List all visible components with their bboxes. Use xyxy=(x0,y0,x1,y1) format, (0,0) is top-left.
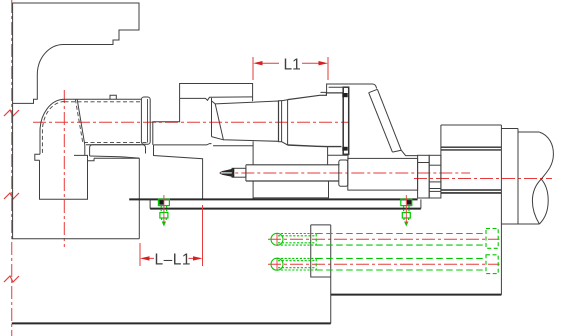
slanted cylinder left edge xyxy=(369,93,393,152)
platen upper block xyxy=(13,3,139,103)
cylinder break lens right xyxy=(539,179,548,224)
dimension L-L1 arrows xyxy=(150,257,194,259)
head 1 division xyxy=(418,162,430,164)
rail right cap xyxy=(420,199,422,208)
barrel bore hidden top xyxy=(65,101,141,103)
elbow inner dashed arc xyxy=(42,102,64,155)
centerline right cylinder axis xyxy=(414,178,552,180)
hopper pipe xyxy=(40,160,88,199)
injection cylinder rod body xyxy=(246,165,339,181)
plate cylinder joint xyxy=(347,154,349,160)
break mark 2 xyxy=(4,193,19,199)
dimension L-L1 extension left xyxy=(139,243,141,266)
elbow right foot xyxy=(74,155,88,158)
cylinder body xyxy=(348,158,418,190)
dimension L1 extension right xyxy=(327,57,329,80)
injection cylinder rod bottom xyxy=(246,180,339,182)
elbow right slant hidden xyxy=(75,99,83,143)
shoe bottom line xyxy=(90,156,140,158)
guide rail top xyxy=(129,198,417,200)
slanted cylinder bottom cap xyxy=(392,150,401,152)
screw tip highlight xyxy=(221,172,232,174)
carriage seat under coupling xyxy=(213,145,253,147)
platen bottom xyxy=(12,238,140,240)
U1 right lower edge xyxy=(252,97,254,101)
rail left cap xyxy=(149,199,151,208)
centerline tie rod 2 xyxy=(268,263,500,265)
motor block band bottom xyxy=(441,190,502,193)
dimension L1 arrows xyxy=(262,62,319,64)
barrel top key tab xyxy=(110,95,116,99)
upper cylinder block U1 xyxy=(180,84,253,99)
carriage left step xyxy=(154,145,203,200)
head 2 line b xyxy=(429,188,441,190)
slant foot extension xyxy=(401,150,417,155)
barrel top line xyxy=(65,98,142,100)
cylinder break lens left xyxy=(532,179,541,224)
elbow outer arc xyxy=(40,99,65,154)
housing front lower edge xyxy=(327,147,329,166)
front plate clamp top xyxy=(342,93,347,97)
barrel bottom line xyxy=(86,144,141,146)
tie rod 1 xyxy=(271,229,498,249)
base bottom left xyxy=(12,322,331,324)
head 2 line c xyxy=(429,190,441,192)
screw coupling quad xyxy=(215,101,278,141)
tie rod 1 end tick xyxy=(276,234,278,245)
step block right xyxy=(517,129,519,225)
cylinder coupler block xyxy=(339,160,348,186)
elbow right slant xyxy=(77,99,85,155)
head 2 line a xyxy=(429,164,441,166)
barrel nose left face xyxy=(287,100,289,145)
cylinder head 2 xyxy=(429,155,441,198)
centerline vertical left (machine axis) xyxy=(11,0,13,336)
front plate clamp bottom xyxy=(342,147,347,151)
platen lower edge left xyxy=(12,103,14,238)
elbow left foot xyxy=(35,154,40,160)
coupling washer xyxy=(279,101,282,142)
tie rod 2 end tick xyxy=(276,259,278,270)
housing top right step xyxy=(329,86,349,88)
cylinder break upper arc xyxy=(539,132,553,179)
rod left end xyxy=(245,165,247,181)
slanted cylinder right edge xyxy=(377,89,401,150)
tie rod 2 xyxy=(271,255,498,274)
housing rear top connector xyxy=(212,101,216,104)
motor block band top xyxy=(441,147,502,150)
anchor bolt 2 xyxy=(401,199,412,221)
break mark 1 xyxy=(4,110,19,116)
platen front face xyxy=(138,158,140,239)
cylinder support bracket xyxy=(253,181,329,198)
right foot step box xyxy=(88,158,95,160)
big cylinder bottom xyxy=(501,223,539,225)
barrel nose connectors xyxy=(282,100,288,145)
barrel nose taper top xyxy=(288,93,344,100)
centerline injection axis xyxy=(219,172,470,174)
head 2 line d xyxy=(429,181,441,183)
base pedestal left xyxy=(311,225,331,277)
dimension L-L1 extension right xyxy=(202,205,204,266)
step block top xyxy=(501,128,518,130)
barrel rear top line xyxy=(180,97,253,100)
screw tip sleeve cap xyxy=(232,168,234,177)
centerline tie rod 1 xyxy=(268,238,500,240)
slanted cylinder cap xyxy=(369,89,378,92)
screw tip cone xyxy=(220,169,232,177)
housing top edge xyxy=(321,84,377,92)
svg-text:L1: L1 xyxy=(284,57,301,74)
barrel nose taper bottom xyxy=(288,145,342,147)
screw tip sleeve xyxy=(232,168,246,177)
barrel flange xyxy=(141,97,150,144)
big cylinder top xyxy=(518,131,539,133)
barrel shoe xyxy=(90,145,146,156)
right column xyxy=(500,125,502,295)
feed housing front outline xyxy=(153,98,180,144)
housing rear face xyxy=(211,98,213,137)
svg-text:L–L1: L–L1 xyxy=(155,251,191,268)
break mark 3 xyxy=(4,276,19,282)
housing bottom right step xyxy=(328,154,348,156)
anchor bolt 1 xyxy=(158,199,169,221)
carriage top profile xyxy=(154,144,212,145)
motor block xyxy=(441,125,502,190)
barrel flange inner line xyxy=(147,99,149,143)
guide rail bottom xyxy=(150,208,421,210)
centerline hopper vertical xyxy=(63,90,65,247)
base pedestal right xyxy=(330,225,332,324)
platen lower top line xyxy=(94,157,139,159)
barrel bore hidden bottom xyxy=(84,142,149,144)
base pedestal cap xyxy=(311,224,331,226)
front plate xyxy=(343,87,349,154)
base mid shelf xyxy=(331,294,502,296)
injection cylinder rod top xyxy=(246,164,340,166)
centerline barrel axis xyxy=(33,121,349,123)
housing rear bottom connector xyxy=(212,137,224,140)
carriage mid vertical xyxy=(252,141,254,199)
dimension L1 extension left xyxy=(252,57,254,80)
cylinder head 1 xyxy=(418,155,430,198)
